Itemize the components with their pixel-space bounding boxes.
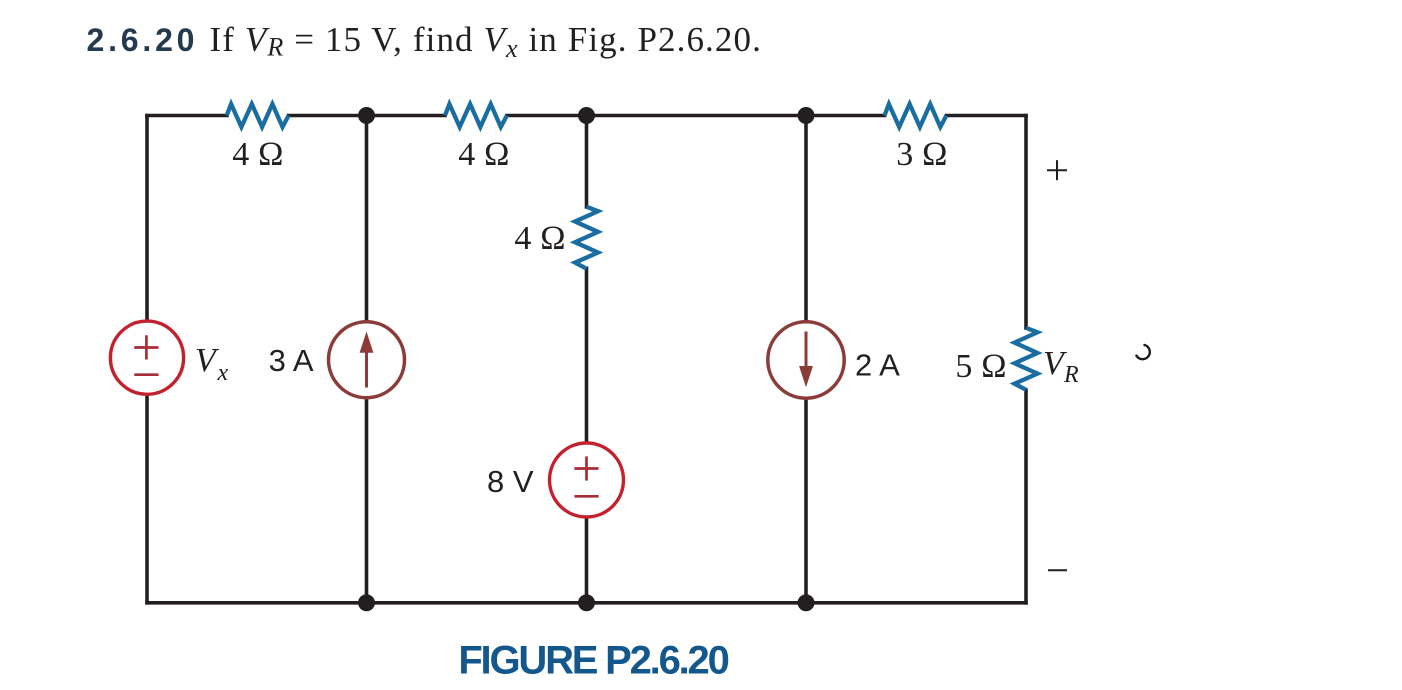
svg-text:3 A: 3 A [269, 343, 314, 378]
svg-text:If VR = 15 V, find Vx in Fig.: If VR = 15 V, find Vx in Fig. P2.6.20. [210, 20, 762, 63]
svg-text:3 Ω: 3 Ω [896, 136, 948, 173]
svg-text:2.6.20: 2.6.20 [87, 22, 199, 58]
svg-text:x: x [217, 360, 229, 386]
svg-text:V: V [195, 342, 220, 379]
svg-text:4 Ω: 4 Ω [458, 136, 510, 173]
svg-text:R: R [1063, 362, 1079, 388]
svg-text:8 V: 8 V [487, 464, 534, 499]
svg-text:FIGURE P2.6.20: FIGURE P2.6.20 [458, 638, 728, 682]
svg-text:5 Ω: 5 Ω [955, 348, 1007, 385]
svg-text:4 Ω: 4 Ω [514, 220, 566, 257]
svg-text:4 Ω: 4 Ω [232, 136, 284, 173]
svg-text:2 A: 2 A [855, 348, 900, 383]
